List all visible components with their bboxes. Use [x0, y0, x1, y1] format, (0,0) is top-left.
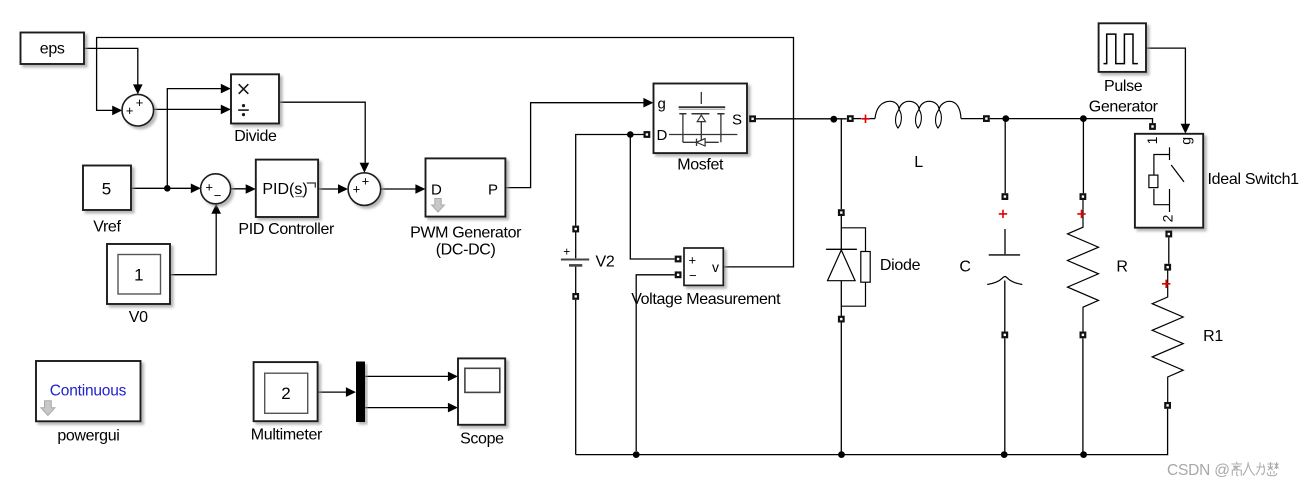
Mosfet icon channel segments: [679, 113, 724, 115]
svg-text:1: 1: [134, 266, 143, 285]
svg-text:g: g: [1178, 137, 1194, 145]
wire junction branch down to Voltage Measurement plus input: [630, 135, 674, 260]
junction bottom bus at Diode: [838, 451, 845, 458]
svg-text:V0: V0: [129, 309, 148, 326]
junction at resistor R branch: [1080, 115, 1087, 122]
wire inductor right terminal to Ideal Switch port 1: [990, 119, 1153, 123]
svg-text:PID(s): PID(s): [262, 181, 307, 198]
svg-text:+: +: [362, 174, 370, 189]
svg-text:P: P: [488, 182, 498, 199]
pad V2 minus: [572, 293, 579, 300]
svg-text:−: −: [689, 268, 697, 283]
Mosfet icon body diode: [683, 141, 719, 143]
wire Diode anode to bottom pad: [840, 281, 842, 316]
red plus at R: [1077, 210, 1085, 218]
svg-text:V2: V2: [596, 254, 615, 271]
pad L left: [847, 115, 854, 122]
V2 lead top: [575, 232, 577, 258]
watermark glyph li: [1232, 462, 1243, 476]
pad Ideal Switch port 2: [1165, 231, 1172, 238]
arrowhead into sum3 left: [338, 184, 348, 194]
DC source V2: [561, 232, 615, 293]
wire Demux output 1 to Scope input 1: [365, 375, 452, 377]
C bottom plate curved: [987, 276, 1022, 284]
block Mosfet: [654, 84, 748, 174]
capacitor C: [959, 229, 1022, 332]
wire Divide output to sum3 top: [279, 102, 365, 166]
wire sum1 output to Divide lower input: [154, 108, 225, 110]
svg-text:Diode: Diode: [880, 257, 921, 274]
pad Mosfet D input: [644, 131, 651, 138]
svg-text:Generator: Generator: [1089, 98, 1159, 115]
block powergui: [36, 361, 141, 444]
wire branch down to resistor R top terminal: [1082, 119, 1084, 194]
red plus at R1: [1162, 280, 1170, 288]
block PWM Generator (DC-DC): [410, 158, 522, 258]
Mosfet icon D lead: [669, 134, 737, 136]
svg-text:Ideal Switch1: Ideal Switch1: [1208, 171, 1300, 188]
block Scope: [458, 358, 505, 447]
C leads: [1004, 229, 1006, 254]
block Voltage Measurement: [631, 248, 781, 308]
arrowhead into Scope input 1: [448, 372, 458, 382]
wire PWM P output up to Mosfet g input: [506, 103, 648, 188]
sum block Add2 (Vref - V0): [201, 174, 231, 204]
L coil loop 3: [936, 110, 942, 129]
wire Vref branch up to Divide upper input: [167, 89, 225, 189]
sum block Add3 (PID + feedforward): [348, 173, 381, 206]
svg-text:2: 2: [281, 384, 290, 403]
arrowhead into PWM D input: [415, 184, 425, 194]
junction on Mosfet S wire: [830, 116, 837, 123]
block Ideal Switch1: [1135, 134, 1299, 228]
pad R1 top: [1164, 264, 1171, 271]
C top plate: [989, 254, 1020, 256]
svg-text:L: L: [914, 154, 923, 171]
watermark glyph ren: [1243, 462, 1255, 476]
svg-text:1: 1: [1144, 136, 1160, 144]
pad Diode top: [838, 209, 845, 216]
L coil loop 1: [896, 110, 902, 129]
wire capacitor C bottom terminal down to bottom bus: [1004, 338, 1006, 454]
junction bottom bus at resistor R: [1080, 451, 1087, 458]
wire Diode bottom terminal down to bottom bus: [840, 323, 842, 455]
wire eps output to sum1 top: [84, 48, 138, 88]
pad R top: [1080, 193, 1087, 200]
arrowhead into sum2 bottom: [211, 204, 221, 214]
arrowhead into Divide upper input: [221, 84, 231, 94]
pad Diode bottom: [838, 316, 845, 323]
wire bottom bus: [576, 409, 1168, 455]
block Vref (constant 5): [83, 166, 131, 236]
svg-text:Vref: Vref: [93, 218, 121, 235]
L coil: [875, 101, 961, 118]
arrowhead into Demux: [346, 387, 356, 397]
svg-text:+: +: [563, 244, 570, 258]
wire Pulse Generator output to Ideal Switch gate: [1146, 48, 1185, 127]
svg-text:D: D: [431, 182, 442, 199]
block Multimeter (double border, 2): [251, 362, 323, 444]
svg-text:(DC-DC): (DC-DC): [436, 242, 496, 259]
wire feedback: VM v output up and across top to sum1 left input: [97, 38, 794, 267]
wire Demux output 2 to Scope input 2: [365, 407, 452, 409]
block PID Controller: [238, 160, 335, 239]
Demux bar: [356, 362, 365, 423]
V2 plus plate: [561, 259, 589, 261]
svg-text:powergui: powergui: [57, 427, 119, 444]
svg-text:Multimeter: Multimeter: [251, 427, 323, 444]
wire branch down to Diode top terminal: [840, 119, 842, 209]
svg-text:S: S: [732, 112, 742, 129]
junction bottom bus at capacitor: [1001, 451, 1008, 458]
inductor L: [850, 101, 983, 171]
svg-text:g: g: [658, 96, 666, 113]
svg-text:Continuous: Continuous: [50, 383, 127, 400]
svg-text:+: +: [689, 253, 697, 268]
wire Mosfet S output to inductor left terminal: [756, 118, 847, 120]
svg-text:2: 2: [1159, 214, 1175, 222]
Mosfet icon gate bar: [679, 106, 726, 108]
wire Voltage Measurement minus input left and down to bottom bus: [636, 275, 675, 451]
svg-text:v: v: [712, 259, 719, 275]
arrowhead into sum1 left: [112, 106, 122, 116]
wire branch down to capacitor C top terminal: [1004, 119, 1006, 194]
Diode snubber resistor: [861, 252, 870, 283]
L coil loop 2: [916, 110, 922, 129]
Mosfet icon posts: [683, 114, 721, 143]
pad Mosfet S output: [749, 115, 756, 122]
svg-text:R: R: [1116, 258, 1127, 275]
Mosfet icon gate lead: [700, 92, 702, 104]
block eps (constant): [21, 33, 85, 65]
red plus at C: [999, 210, 1007, 218]
arrowhead into PID input: [246, 184, 256, 194]
wire Multimeter output to Demux: [318, 391, 350, 393]
wire sum3 output to PWM D input: [381, 188, 420, 190]
wire V0 output up to sum2 bottom: [170, 210, 216, 275]
resistor R1: [1152, 271, 1223, 403]
Mosfet icon substrate arrow: [697, 115, 705, 122]
resistor R: [1068, 200, 1128, 332]
pad R1 bottom: [1164, 402, 1171, 409]
svg-text:Divide: Divide: [234, 128, 277, 145]
arrowhead into sum1 top: [133, 84, 143, 94]
svg-text:+: +: [126, 103, 134, 118]
pad VM minus input: [675, 271, 682, 278]
svg-text:D: D: [657, 127, 668, 144]
svg-text:−: −: [214, 188, 222, 203]
V2 lead bottom: [575, 267, 577, 293]
Diode triangle: [828, 250, 856, 281]
switch icon: [1169, 147, 1171, 160]
block Pulse Generator: [1089, 23, 1159, 115]
red plus at L input: [861, 115, 869, 123]
wire PID output to sum3 left: [318, 188, 342, 190]
arrowhead into sum3 top: [360, 163, 370, 173]
junction on V2 to Mosfet D wire: [627, 131, 634, 138]
junction bottom bus at VM minus: [633, 451, 640, 458]
svg-text:R1: R1: [1203, 328, 1223, 345]
svg-text:C: C: [959, 259, 970, 276]
wire Ideal Switch port 2 down to resistor R1 top terminal: [1168, 238, 1170, 264]
arrowhead into Ideal Switch gate: [1181, 124, 1191, 134]
wire V2 plus up and right to Mosfet D input: [576, 135, 644, 226]
watermark glyph chou: [1267, 462, 1278, 476]
Diode snubber branch: [841, 228, 865, 306]
svg-text:Scope: Scope: [460, 430, 504, 447]
block Divide: [231, 74, 279, 145]
wire Vref output to sum2: [131, 187, 195, 189]
pad Ideal Switch port 1: [1149, 123, 1156, 130]
pad C top: [1002, 193, 1009, 200]
pad VM plus input: [675, 256, 682, 263]
svg-text:Mosfet: Mosfet: [677, 157, 724, 174]
sum block Add1 (eps + feedback): [122, 94, 154, 126]
svg-text:PID Controller: PID Controller: [238, 221, 335, 238]
block V0 (constant 1, double border): [107, 244, 170, 326]
Diode: [826, 228, 921, 306]
junction on Vref wire: [164, 185, 171, 192]
wire sum2 output to PID input: [231, 188, 250, 190]
svg-text:+: +: [353, 182, 361, 197]
watermark CSDN: [1167, 462, 1279, 479]
svg-text:5: 5: [102, 179, 111, 198]
arrowhead into Mosfet g input: [643, 98, 653, 108]
arrowhead into sum2 left: [191, 184, 201, 194]
wire Diode pad to cathode bar: [840, 216, 842, 249]
wire resistor R bottom terminal down to bottom bus: [1082, 338, 1084, 454]
svg-text:PWM Generator: PWM Generator: [410, 224, 522, 241]
svg-text:Pulse: Pulse: [1104, 78, 1143, 95]
svg-text:eps: eps: [40, 41, 65, 58]
watermark glyph ka: [1256, 462, 1265, 475]
svg-text:+: +: [205, 179, 213, 194]
Diode cathode bar: [826, 248, 857, 250]
svg-text:Voltage Measurement: Voltage Measurement: [631, 291, 781, 308]
wire V2 minus down to bottom bus: [575, 300, 577, 455]
V2 minus plate: [569, 264, 582, 267]
pad L right: [983, 115, 990, 122]
pad R bottom: [1080, 332, 1087, 339]
pad V2 plus: [572, 226, 579, 233]
pad C bottom: [1001, 332, 1008, 339]
arrowhead into Scope input 2: [448, 403, 458, 413]
arrowhead into Divide lower input: [221, 105, 231, 115]
svg-text:+: +: [136, 95, 144, 110]
junction at capacitor branch: [1002, 115, 1009, 122]
svg-text:CSDN @: CSDN @: [1167, 462, 1230, 479]
